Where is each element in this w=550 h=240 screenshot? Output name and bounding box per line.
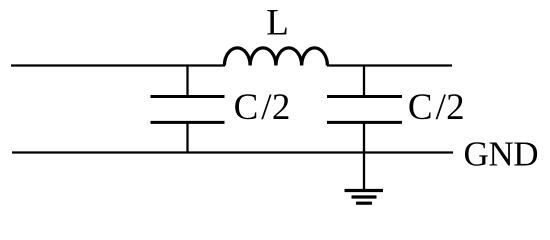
wire stub C2 top	[363, 65, 365, 97]
wire top-right segment	[327, 64, 452, 66]
wire top-left segment	[11, 64, 225, 66]
ground symbol	[345, 191, 384, 204]
svg-text:L: L	[266, 2, 289, 43]
capacitor C2 (C/2)	[327, 97, 402, 123]
capacitor C1 (C/2)	[151, 97, 225, 123]
wire stub C1 top	[186, 65, 188, 97]
wire stub C2 bottom to ground	[363, 122, 365, 191]
wire bottom rail	[12, 151, 453, 153]
wire stub C1 bottom	[186, 122, 188, 154]
svg-text:GND: GND	[464, 135, 539, 174]
svg-text:C/2: C/2	[408, 87, 465, 128]
inductor L	[224, 48, 327, 66]
svg-text:C/2: C/2	[234, 87, 291, 128]
